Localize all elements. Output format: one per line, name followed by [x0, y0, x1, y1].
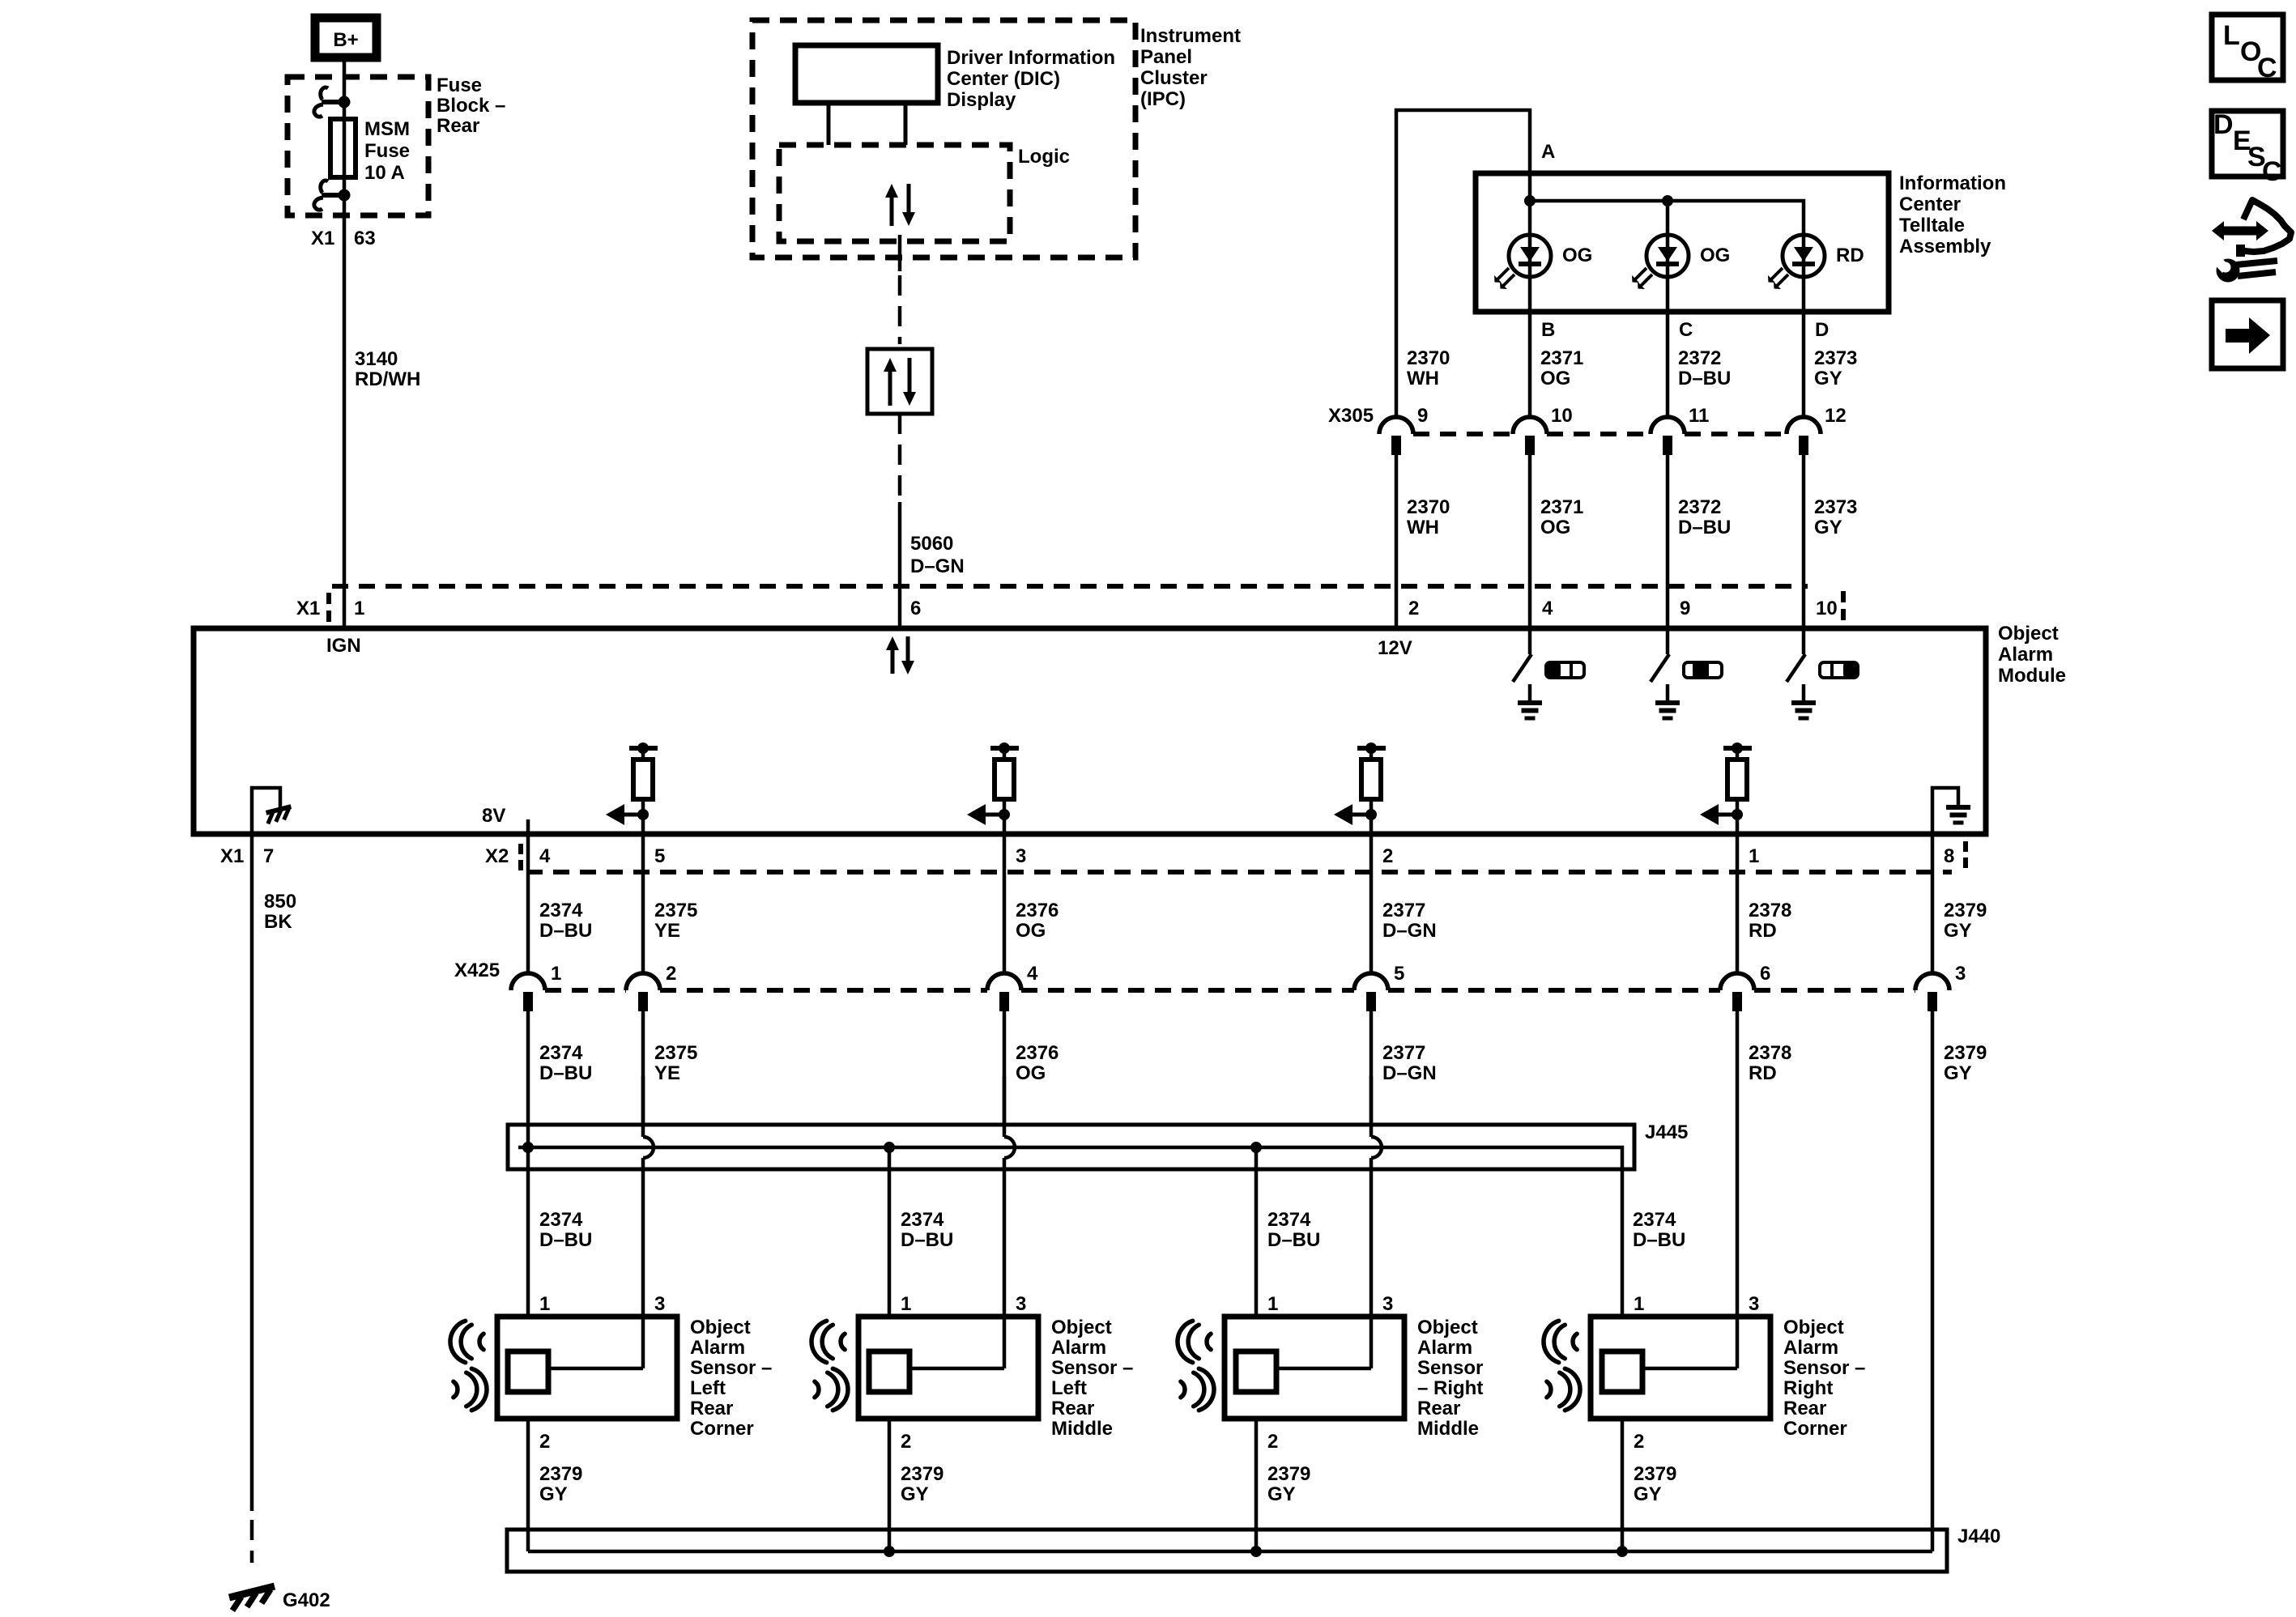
svg-text:D–BU: D–BU [1633, 1229, 1685, 1251]
svg-text:2376: 2376 [1016, 1042, 1059, 1064]
connector X1 dashed line [332, 584, 1808, 589]
X305 terminal pin 9 [1379, 417, 1413, 434]
X2 terminator dash [1963, 841, 1968, 868]
svg-text:6: 6 [910, 598, 921, 619]
svg-text:1: 1 [539, 1293, 550, 1315]
icon hand with double arrow and wrench [2221, 227, 2259, 236]
wire 2375 YE X425 to J445 [641, 1011, 645, 1125]
X1 separator dash [326, 593, 331, 622]
svg-text:Fuse: Fuse [364, 140, 410, 162]
svg-text:GY: GY [1814, 368, 1842, 389]
LED wire B [1528, 173, 1532, 417]
X425 terminal pin 4 [987, 973, 1021, 990]
svg-text:Corner: Corner [1783, 1418, 1847, 1440]
fuse block - rear dashed box [288, 77, 428, 215]
object alarm sensor box at x=1060 [858, 1317, 1038, 1419]
svg-text:2: 2 [666, 963, 676, 985]
DIC to logic stubs [827, 103, 831, 145]
svg-text:L: L [2223, 20, 2240, 51]
svg-text:3: 3 [1955, 963, 1966, 985]
wire 2378 RD to sensor 4 [1736, 1011, 1740, 1317]
svg-text:10: 10 [1551, 405, 1573, 427]
X425 terminal pin 3 [1915, 973, 1949, 990]
ground G402 [229, 1586, 275, 1598]
svg-text:1: 1 [901, 1293, 911, 1315]
svg-text:C: C [2262, 156, 2282, 187]
svg-text:2377: 2377 [1382, 1042, 1425, 1064]
svg-text:2376: 2376 [1016, 900, 1059, 921]
svg-text:RD: RD [1749, 1062, 1777, 1084]
svg-text:Driver Information: Driver Information [947, 47, 1115, 69]
svg-text:Fuse: Fuse [437, 74, 482, 96]
svg-text:2372: 2372 [1678, 347, 1721, 369]
svg-text:3: 3 [1382, 1293, 1393, 1315]
wire 2379 GY sensor 1 pin 2 to J440 [526, 1419, 530, 1551]
telltale driver switch 1 [1528, 628, 1532, 654]
svg-text:GY: GY [901, 1483, 929, 1505]
wire 2376 OG module to X425 [1003, 834, 1007, 973]
svg-text:J440: J440 [1957, 1526, 2000, 1547]
svg-text:Block –: Block – [437, 95, 505, 117]
svg-text:5: 5 [1394, 963, 1404, 985]
svg-text:1: 1 [1749, 845, 1759, 867]
svg-text:YE: YE [654, 1062, 680, 1084]
svg-text:850: 850 [264, 891, 296, 913]
svg-text:RD: RD [1836, 245, 1864, 266]
svg-text:MSM: MSM [364, 118, 410, 140]
svg-text:4: 4 [539, 845, 551, 867]
svg-text:2373: 2373 [1814, 347, 1857, 369]
logic dashed box [779, 145, 1010, 241]
wire 2374 D-BU J445 to sensor 3 pin 1 [1254, 1147, 1259, 1317]
svg-text:Logic: Logic [1018, 146, 1070, 168]
X305 terminal pin 12 [1787, 417, 1821, 434]
svg-text:D–BU: D–BU [1267, 1229, 1320, 1251]
svg-text:2372: 2372 [1678, 496, 1721, 518]
svg-text:Corner: Corner [690, 1418, 754, 1440]
svg-text:C: C [2257, 53, 2277, 83]
svg-text:J445: J445 [1645, 1121, 1688, 1143]
svg-text:Right: Right [1783, 1377, 1833, 1399]
svg-text:Object: Object [1417, 1317, 1478, 1338]
svg-text:4: 4 [1027, 963, 1038, 985]
svg-text:5: 5 [654, 845, 665, 867]
sensor internal wire [909, 1367, 1004, 1371]
svg-text:2375: 2375 [654, 900, 697, 921]
wire 2371 OG to module pin 4 [1528, 455, 1532, 628]
sensor inner square [1236, 1351, 1276, 1392]
svg-text:9: 9 [1417, 405, 1428, 427]
svg-text:2371: 2371 [1540, 496, 1583, 518]
sensor inner square [869, 1351, 909, 1392]
wire 2374 D-BU J445 to sensor 2 pin 1 [888, 1147, 892, 1317]
wire 850 BK [250, 834, 254, 1511]
sensor driver resistor 2 [990, 746, 1019, 751]
svg-text:4: 4 [1542, 598, 1553, 619]
wire 2372 D-BU to module pin 9 [1666, 455, 1670, 628]
wire 2379 GY sensor 4 pin 2 to J440 [1621, 1419, 1625, 1551]
svg-text:3: 3 [1016, 845, 1026, 867]
svg-text:D–BU: D–BU [539, 1062, 592, 1084]
LED RD [1783, 235, 1825, 277]
telltale anode bus [1530, 201, 1804, 235]
svg-text:1: 1 [1267, 1293, 1278, 1315]
wire 2376 OG X425 to J445 [1003, 1011, 1007, 1125]
svg-text:2370: 2370 [1407, 496, 1450, 518]
svg-text:YE: YE [654, 920, 680, 942]
fuse MSM 10A [330, 119, 356, 177]
object alarm module box [194, 628, 1986, 834]
sensor ultrasonic waves [841, 1334, 845, 1350]
svg-text:9: 9 [1680, 598, 1690, 619]
svg-text:Alarm: Alarm [1417, 1337, 1472, 1359]
svg-text:Rear: Rear [690, 1398, 733, 1419]
svg-text:2374: 2374 [901, 1209, 944, 1231]
svg-text:D–BU: D–BU [539, 920, 592, 942]
svg-text:2370: 2370 [1407, 347, 1450, 369]
module internal ground pin 8 [1932, 788, 1958, 834]
X1 terminator dash [1841, 591, 1846, 622]
svg-text:X2: X2 [485, 845, 509, 867]
instrument panel cluster dashed box [752, 20, 1135, 257]
svg-text:63: 63 [354, 228, 376, 249]
wire B+ to module pin X1-1 [343, 62, 347, 628]
svg-text:2379: 2379 [1944, 1042, 1987, 1064]
svg-text:Alarm: Alarm [1998, 644, 2053, 666]
svg-text:2379: 2379 [1267, 1463, 1310, 1485]
svg-text:A: A [1541, 141, 1555, 163]
svg-text:Sensor: Sensor [1417, 1357, 1483, 1379]
sensor ultrasonic waves [1573, 1334, 1577, 1350]
svg-text:Rear: Rear [1417, 1398, 1460, 1419]
wire 2375 hop through J445 [641, 1076, 645, 1137]
svg-text:Object: Object [1998, 623, 2059, 645]
svg-text:2: 2 [1634, 1431, 1644, 1453]
X425 terminal pin 2 [626, 973, 660, 990]
X425 terminal pin 6 [1720, 973, 1754, 990]
svg-text:2: 2 [1382, 845, 1393, 867]
svg-text:D–BU: D–BU [1678, 368, 1731, 389]
object alarm sensor box at x=614 [497, 1317, 677, 1419]
icon LOC [2212, 15, 2283, 80]
svg-text:2: 2 [1267, 1431, 1278, 1453]
X305 terminal pin 11 [1651, 417, 1685, 434]
svg-text:2: 2 [539, 1431, 550, 1453]
svg-text:2: 2 [901, 1431, 911, 1453]
svg-text:Center (DIC): Center (DIC) [947, 68, 1060, 90]
X425 terminal pin 1 [511, 973, 545, 990]
wire 2376 hop through J445 [1003, 1076, 1007, 1137]
svg-text:Information: Information [1899, 172, 2006, 194]
svg-text:2374: 2374 [1267, 1209, 1311, 1231]
svg-text:Instrument: Instrument [1140, 25, 1241, 47]
svg-text:Center: Center [1899, 194, 1961, 215]
driver information center display box [795, 45, 938, 103]
serial data wire from logic [898, 235, 902, 271]
wire 2377 hop through J445 [1370, 1076, 1374, 1137]
svg-text:D–BU: D–BU [901, 1229, 953, 1251]
svg-text:Object: Object [1783, 1317, 1844, 1338]
svg-text:Rear: Rear [437, 115, 479, 137]
svg-text:OG: OG [1016, 1062, 1046, 1084]
svg-text:GY: GY [539, 1483, 568, 1505]
svg-text:RD/WH: RD/WH [355, 368, 420, 390]
svg-text:X1: X1 [311, 228, 334, 249]
svg-text:Object: Object [690, 1317, 751, 1338]
svg-text:Sensor –: Sensor – [690, 1357, 772, 1379]
svg-text:2378: 2378 [1749, 900, 1791, 921]
connector X2 dashed line [526, 870, 1952, 874]
wire 2373 GY to module pin 10 [1802, 455, 1806, 628]
wire 5060 D-GN [898, 502, 902, 628]
svg-text:OG: OG [1016, 920, 1046, 942]
svg-text:2374: 2374 [1633, 1209, 1676, 1231]
svg-text:D: D [1815, 319, 1829, 341]
svg-text:2373: 2373 [1814, 496, 1857, 518]
svg-text:Alarm: Alarm [690, 1337, 745, 1359]
sensor inner square [1602, 1351, 1642, 1392]
LED OG 1 [1509, 235, 1551, 277]
svg-text:2378: 2378 [1749, 1042, 1791, 1064]
svg-text:RD: RD [1749, 920, 1777, 942]
LED OG 2 [1646, 235, 1689, 277]
svg-text:Rear: Rear [1783, 1398, 1826, 1419]
X2 separator dash [518, 844, 523, 870]
svg-text:Left: Left [690, 1377, 726, 1399]
svg-text:3: 3 [1749, 1293, 1759, 1315]
svg-text:10: 10 [1816, 598, 1838, 619]
svg-text:GY: GY [1814, 517, 1842, 538]
sensor internal wire [548, 1367, 643, 1371]
svg-text:Assembly: Assembly [1899, 236, 1991, 257]
LED wire D [1802, 235, 1806, 417]
wire 2377 D-GN module to X425 [1370, 834, 1374, 973]
logic serial arrows [890, 198, 894, 226]
svg-text:Telltale: Telltale [1899, 215, 1965, 236]
wire 2379 GY sensor 2 pin 2 to J440 [888, 1419, 892, 1551]
svg-text:G402: G402 [283, 1589, 330, 1611]
wire 2379 GY sensor 3 pin 2 to J440 [1254, 1419, 1259, 1551]
svg-text:Module: Module [1998, 665, 2066, 687]
wire 2374 D-BU J445 to sensor 1 pin 1 [526, 1147, 530, 1317]
object alarm sensor box at x=1964 [1591, 1317, 1770, 1419]
svg-text:GY: GY [1634, 1483, 1662, 1505]
svg-text:2374: 2374 [539, 1209, 583, 1231]
svg-text:Object: Object [1051, 1317, 1112, 1338]
LED wire C [1666, 201, 1670, 417]
svg-text:– Right: – Right [1417, 1377, 1483, 1399]
svg-text:D–GN: D–GN [1382, 1062, 1437, 1084]
svg-text:D–GN: D–GN [1382, 920, 1437, 942]
svg-text:2379: 2379 [539, 1463, 582, 1485]
serial data arrow box [867, 349, 932, 414]
wire 2375 YE module to X425 [641, 834, 645, 973]
wire 2378 RD module to X425 [1736, 834, 1740, 973]
wire 2377 D-GN X425 to J445 [1370, 1011, 1374, 1125]
svg-text:GY: GY [1944, 1062, 1972, 1084]
fuse clip bottom [322, 193, 344, 198]
serial data wire dashed segment [898, 414, 902, 504]
svg-text:OG: OG [1540, 368, 1570, 389]
8V stub pin 4 [526, 819, 530, 834]
svg-text:2379: 2379 [1634, 1463, 1676, 1485]
sensor internal wire [1276, 1367, 1371, 1371]
svg-text:OG: OG [1700, 245, 1730, 266]
connector X425 dashed line [545, 988, 626, 993]
svg-text:2374: 2374 [539, 1042, 583, 1064]
svg-text:2374: 2374 [539, 900, 583, 921]
svg-text:8V: 8V [482, 805, 505, 827]
telltale driver switch 3 [1802, 628, 1806, 654]
svg-text:3: 3 [1016, 1293, 1026, 1315]
svg-text:(IPC): (IPC) [1140, 88, 1186, 110]
svg-text:WH: WH [1407, 517, 1439, 538]
svg-text:2371: 2371 [1540, 347, 1583, 369]
fuse clip top [322, 100, 344, 104]
svg-text:X1: X1 [220, 845, 244, 867]
J445 internal bus [518, 1147, 1622, 1171]
svg-text:Middle: Middle [1417, 1418, 1479, 1440]
svg-text:D–BU: D–BU [539, 1229, 592, 1251]
splice pack J440 box [507, 1530, 1947, 1572]
icon DESC [2212, 111, 2283, 177]
svg-text:BK: BK [264, 911, 292, 933]
svg-text:OG: OG [1562, 245, 1592, 266]
wire 2374 D-BU module to X425 [526, 834, 530, 973]
svg-text:IGN: IGN [326, 635, 361, 657]
svg-text:7: 7 [263, 845, 274, 867]
sensor driver resistor 4 [1723, 746, 1752, 751]
connector X305 dashed line [1413, 432, 1513, 436]
wire 2379 GY to J440 [1931, 1011, 1935, 1551]
svg-text:Sensor –: Sensor – [1783, 1357, 1865, 1379]
svg-text:12V: 12V [1378, 637, 1412, 659]
sensor driver resistor 3 [1357, 746, 1386, 751]
svg-text:Panel: Panel [1140, 46, 1192, 68]
svg-text:2375: 2375 [654, 1042, 697, 1064]
svg-text:GY: GY [1267, 1483, 1296, 1505]
svg-text:Alarm: Alarm [1051, 1337, 1106, 1359]
svg-text:C: C [1679, 319, 1693, 341]
sensor ultrasonic waves [479, 1334, 483, 1350]
svg-text:X425: X425 [454, 960, 500, 981]
svg-text:2377: 2377 [1382, 900, 1425, 921]
svg-text:2379: 2379 [901, 1463, 944, 1485]
object alarm sensor box at x=1512 [1225, 1317, 1404, 1419]
telltale driver switch 2 [1666, 628, 1670, 654]
X305 terminal pin 10 [1513, 417, 1547, 434]
svg-text:Display: Display [947, 89, 1016, 111]
svg-text:6: 6 [1760, 963, 1770, 985]
wire 2370 WH to module pin 2 [1395, 455, 1399, 628]
svg-text:5060: 5060 [910, 533, 953, 555]
X425 terminal pin 5 [1354, 973, 1388, 990]
power feed B+ [315, 18, 377, 57]
svg-text:11: 11 [1689, 405, 1709, 427]
sensor ultrasonic waves [1207, 1334, 1211, 1350]
wire 2374 D-BU X425 to J445 [526, 1011, 530, 1147]
svg-text:Middle: Middle [1051, 1418, 1113, 1440]
svg-text:GY: GY [1944, 920, 1972, 942]
svg-text:Rear: Rear [1051, 1398, 1094, 1419]
icon forward arrow [2212, 300, 2283, 368]
svg-text:1: 1 [551, 963, 561, 985]
svg-text:X305: X305 [1328, 405, 1374, 427]
svg-text:8: 8 [1944, 845, 1954, 867]
svg-text:12: 12 [1825, 405, 1847, 427]
wire 2374 D-BU J445 to sensor 4 pin 1 [1621, 1169, 1625, 1317]
svg-text:X1: X1 [296, 598, 320, 619]
sensor inner square [508, 1351, 548, 1392]
svg-text:3: 3 [654, 1293, 665, 1315]
svg-text:D: D [2213, 109, 2234, 140]
svg-text:WH: WH [1407, 368, 1439, 389]
module internal ground pin 7 [252, 788, 280, 834]
sensor internal wire [1642, 1367, 1737, 1371]
svg-text:1: 1 [354, 598, 364, 619]
svg-text:3140: 3140 [355, 348, 398, 370]
svg-text:Alarm: Alarm [1783, 1337, 1838, 1359]
svg-text:2379: 2379 [1944, 900, 1987, 921]
information center telltale assembly box [1476, 173, 1889, 312]
svg-text:OG: OG [1540, 517, 1570, 538]
svg-text:2: 2 [1408, 598, 1419, 619]
sensor driver resistor 1 [629, 746, 658, 751]
svg-text:Cluster: Cluster [1140, 67, 1208, 89]
wire 2379 GY module to X425 [1931, 834, 1935, 973]
J440 internal bus [528, 1550, 1932, 1554]
svg-text:10 A: 10 A [364, 162, 405, 184]
svg-text:Left: Left [1051, 1377, 1087, 1399]
svg-text:Sensor –: Sensor – [1051, 1357, 1133, 1379]
module serial arrows at pin 6 [891, 650, 895, 674]
svg-text:1: 1 [1634, 1293, 1644, 1315]
svg-text:B+: B+ [333, 29, 358, 51]
wire telltale feed 2370 WH upper run [1396, 110, 1530, 417]
svg-text:D–BU: D–BU [1678, 517, 1731, 538]
splice pack J445 box [508, 1125, 1634, 1169]
svg-text:B: B [1541, 319, 1555, 341]
svg-text:D–GN: D–GN [910, 555, 965, 577]
